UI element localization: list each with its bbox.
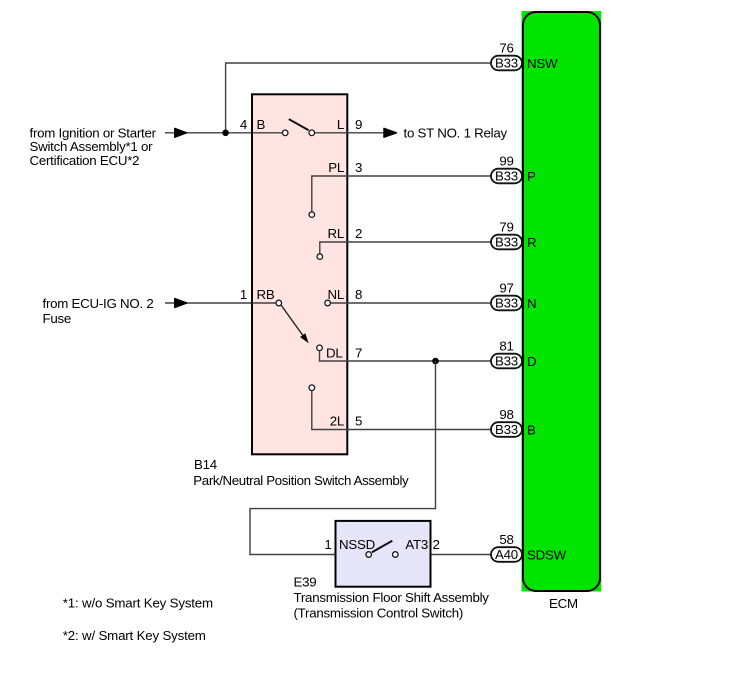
contact RL circle bbox=[317, 254, 323, 260]
switch assembly B14 block bbox=[252, 94, 347, 454]
svg-text:2: 2 bbox=[355, 226, 362, 241]
svg-text:E39: E39 bbox=[294, 575, 317, 590]
ECM block border bbox=[523, 12, 600, 591]
svg-text:B: B bbox=[257, 117, 266, 132]
svg-text:4: 4 bbox=[240, 117, 247, 132]
svg-text:3: 3 bbox=[355, 160, 362, 175]
svg-text:B33: B33 bbox=[495, 235, 518, 250]
node D junction dot bbox=[432, 358, 439, 365]
svg-text:1: 1 bbox=[324, 537, 331, 552]
contact B circle bbox=[282, 130, 288, 136]
svg-text:81: 81 bbox=[499, 339, 513, 354]
wire NSW net bbox=[226, 63, 492, 133]
svg-text:D: D bbox=[527, 354, 536, 369]
wire RB row bbox=[252, 302, 276, 304]
svg-text:Park/Neutral Position Switch A: Park/Neutral Position Switch Assembly bbox=[193, 473, 409, 488]
connector B33 pin 79 oval bbox=[491, 235, 522, 250]
svg-text:B33: B33 bbox=[495, 296, 518, 311]
wire PL net bbox=[312, 176, 492, 212]
node A junction dot bbox=[222, 130, 229, 137]
svg-text:1: 1 bbox=[240, 287, 247, 302]
contact NL circle bbox=[325, 300, 331, 306]
wire B row inside block left bbox=[252, 132, 282, 134]
arrowhead from-Ignition input bbox=[175, 128, 187, 137]
connector A40 pin 58 oval bbox=[491, 547, 522, 562]
svg-text:2: 2 bbox=[433, 537, 440, 552]
svg-text:Transmission Floor Shift Assem: Transmission Floor Shift Assembly bbox=[294, 590, 490, 605]
connector B33 pin 76 oval bbox=[491, 56, 522, 71]
arrowhead ECU-IG input bbox=[175, 299, 187, 308]
wire SDSW to A40 bbox=[398, 554, 491, 556]
svg-text:L: L bbox=[337, 117, 344, 132]
svg-text:to ST NO. 1 Relay: to ST NO. 1 Relay bbox=[404, 126, 508, 141]
svg-text:NSW: NSW bbox=[527, 56, 558, 71]
svg-text:7: 7 bbox=[355, 346, 362, 361]
contact DL circle bbox=[317, 345, 323, 351]
contact AT3 circle bbox=[393, 552, 399, 558]
svg-text:9: 9 bbox=[355, 117, 362, 132]
svg-text:B14: B14 bbox=[194, 457, 217, 472]
svg-text:B33: B33 bbox=[495, 422, 518, 437]
svg-text:B: B bbox=[527, 422, 536, 437]
svg-text:N: N bbox=[527, 296, 536, 311]
svg-text:R: R bbox=[527, 235, 536, 250]
svg-text:AT3: AT3 bbox=[405, 537, 428, 552]
svg-text:*2: w/ Smart Key System: *2: w/ Smart Key System bbox=[63, 628, 206, 643]
connector B33 pin 97 oval bbox=[491, 296, 522, 311]
svg-text:(Transmission Control Switch): (Transmission Control Switch) bbox=[294, 605, 464, 620]
wire from ECU-IG NO.2 Fuse to pin 1 bbox=[165, 302, 252, 304]
blade arrowhead bbox=[300, 333, 309, 343]
svg-text:79: 79 bbox=[499, 220, 513, 235]
svg-text:RB: RB bbox=[257, 287, 275, 302]
svg-text:B33: B33 bbox=[495, 56, 518, 71]
svg-text:ECM: ECM bbox=[549, 596, 578, 611]
svg-text:NSSD: NSSD bbox=[339, 537, 375, 552]
ECM block fill bbox=[522, 11, 602, 592]
svg-text:76: 76 bbox=[499, 41, 513, 56]
contact NSSD circle bbox=[366, 552, 372, 558]
svg-text:NL: NL bbox=[328, 287, 345, 302]
wire RL net bbox=[320, 242, 492, 254]
svg-text:97: 97 bbox=[499, 281, 513, 296]
svg-text:DL: DL bbox=[326, 346, 343, 361]
svg-text:Certification ECU*2: Certification ECU*2 bbox=[30, 153, 140, 168]
contact PL circle bbox=[309, 212, 315, 218]
svg-text:2L: 2L bbox=[330, 414, 344, 429]
svg-text:58: 58 bbox=[499, 532, 513, 547]
contact L circle bbox=[309, 130, 315, 136]
svg-text:from ECU-IG NO. 2: from ECU-IG NO. 2 bbox=[43, 296, 154, 311]
svg-text:P: P bbox=[527, 169, 536, 184]
arrowhead to ST NO.1 Relay bbox=[384, 128, 397, 137]
svg-text:5: 5 bbox=[355, 414, 362, 429]
connector B33 pin 99 oval bbox=[491, 169, 522, 184]
svg-text:8: 8 bbox=[355, 287, 362, 302]
svg-text:99: 99 bbox=[499, 154, 513, 169]
wire from Ignition to node A bbox=[165, 132, 252, 134]
switch blade RB arrow bbox=[281, 305, 304, 337]
switch blade NSSD-AT3 bbox=[372, 541, 392, 553]
svg-text:from Ignition or Starter: from Ignition or Starter bbox=[30, 125, 157, 140]
wire SDSW net from node D to E39 bbox=[250, 361, 436, 555]
svg-text:PL: PL bbox=[328, 160, 344, 175]
wire L row to ST relay bbox=[315, 132, 384, 134]
contact RB circle bbox=[276, 300, 282, 306]
svg-text:*1: w/o Smart Key System: *1: w/o Smart Key System bbox=[63, 596, 213, 611]
svg-text:RL: RL bbox=[328, 226, 345, 241]
svg-text:A40: A40 bbox=[495, 547, 518, 562]
switch blade B-L bbox=[289, 119, 309, 130]
svg-text:B33: B33 bbox=[495, 354, 518, 369]
connector B33 pin 98 oval bbox=[491, 422, 522, 437]
wire 2L net bbox=[312, 391, 492, 430]
svg-text:Fuse: Fuse bbox=[43, 311, 72, 326]
svg-text:B33: B33 bbox=[495, 169, 518, 184]
wire DL net bbox=[320, 351, 492, 361]
connector B33 pin 81 oval bbox=[491, 354, 522, 369]
wire NL net bbox=[330, 302, 491, 304]
transmission switch E39 block bbox=[336, 521, 431, 587]
svg-text:SDSW: SDSW bbox=[527, 547, 567, 562]
svg-text:98: 98 bbox=[499, 407, 513, 422]
contact 2L circle bbox=[309, 385, 315, 391]
